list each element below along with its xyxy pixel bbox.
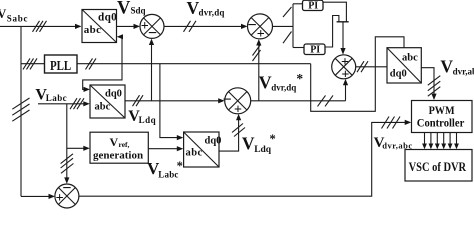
- slashes on riser (2): [253, 45, 261, 56]
- PI block PI2: [304, 44, 325, 55]
- wire left vertical from node J1 down to sum S5: [20, 26, 22, 196]
- gate pulse wires PWM to VSC (6): [424, 133, 426, 146]
- wire branch down to Vref gen and S5: [66, 104, 68, 178]
- slashes on theta rail (2): [86, 58, 93, 69]
- PI block PI1: [303, 0, 324, 10]
- merge bar: [337, 21, 349, 23]
- svg-text:abc: abc: [84, 24, 102, 36]
- svg-text:Ldq: Ldq: [139, 115, 157, 125]
- block U1 abc->dq0: [82, 10, 117, 43]
- svg-text:dvr,abc: dvr,abc: [453, 67, 474, 77]
- svg-text:PI: PI: [310, 45, 320, 56]
- svg-text:PWM: PWM: [429, 105, 455, 117]
- svg-text:dvr,dq: dvr,dq: [271, 83, 296, 93]
- wire PLL output / theta rail: [77, 63, 311, 65]
- summing junction S3: [332, 55, 356, 79]
- wire theta elbow into U2 left edge: [83, 64, 122, 90]
- wire S4 output: [251, 100, 346, 102]
- slash d-axis branch: [283, 7, 292, 17]
- PLL block: [45, 55, 78, 73]
- svg-text:*: *: [296, 71, 303, 86]
- block Vref generation: [90, 132, 148, 163]
- wire U3 output V_Ldq* riser into S4: [219, 119, 239, 151]
- block PWM controller: [412, 101, 473, 133]
- slashes on S3 output (2): [357, 61, 364, 72]
- svg-text:−: −: [248, 17, 257, 34]
- svg-text:PLL: PLL: [50, 59, 71, 74]
- wire into PI1: [293, 3, 303, 5]
- slash q-axis branch: [283, 32, 292, 44]
- block VSC of DVR: [405, 150, 472, 182]
- svg-text:dq0: dq0: [205, 136, 222, 147]
- svg-text:Sabc: Sabc: [7, 13, 29, 23]
- svg-text:Ldq: Ldq: [254, 145, 272, 155]
- wire into PI2: [293, 47, 304, 49]
- svg-text:+: +: [234, 102, 242, 117]
- svg-text:Labc: Labc: [158, 170, 178, 180]
- wire into Vref generation block: [67, 147, 85, 149]
- svg-text:V: V: [0, 7, 6, 21]
- svg-text:V: V: [440, 56, 453, 76]
- svg-text:−: −: [148, 25, 157, 42]
- wire PI splitter vertical: [292, 4, 294, 48]
- wire U4 output down into PWM: [421, 68, 434, 95]
- slashes on S4 output (2): [318, 95, 326, 106]
- summing junction S5: [55, 184, 79, 208]
- svg-text:dvr,abc: dvr,abc: [382, 141, 412, 151]
- wire V_Ldq rail from U2 to S4: [125, 100, 220, 102]
- svg-text:+: +: [56, 191, 64, 206]
- wire theta route into U4 top: [311, 37, 404, 112]
- arrowhead into transform U1: [75, 24, 82, 29]
- svg-text:Controller: Controller: [417, 117, 465, 129]
- 3-phase slashes on PLL input: [23, 58, 30, 69]
- svg-text:VSC of DVR: VSC of DVR: [409, 159, 467, 174]
- svg-text:dq0: dq0: [390, 69, 407, 80]
- summing junction S4: [225, 88, 251, 114]
- wire theta riser into U1 right edge: [119, 37, 123, 64]
- slashes on U4 output drop (3): [428, 76, 441, 86]
- slashes on V_Labc (3): [70, 98, 77, 109]
- svg-text:dq0: dq0: [105, 88, 122, 99]
- 3-phase slashes on V_Sabc rail: [33, 21, 40, 32]
- svg-text:Labc: Labc: [46, 93, 67, 103]
- 3-phase slashes on left vertical wire: [12, 98, 29, 109]
- wire U1 output V_Sdq: [117, 25, 135, 27]
- svg-text:+: +: [257, 27, 265, 42]
- svg-text:*: *: [177, 159, 183, 173]
- svg-text:abc: abc: [186, 147, 203, 158]
- wire into sum S5 plus input: [21, 195, 50, 197]
- slashes on vertical (3): [61, 154, 73, 164]
- svg-text:ref,: ref,: [119, 140, 130, 149]
- wire PI1 output: [323, 2, 346, 22]
- svg-text:*: *: [270, 132, 276, 146]
- block U3 abc->dq0: [184, 132, 219, 167]
- wire S2 output to PI split: [273, 25, 294, 27]
- slashes on feedback into PWM (3): [382, 117, 390, 129]
- wire theta drop into U3 left edge: [160, 64, 178, 138]
- wire Vref output V_Labc* into U3: [148, 148, 178, 150]
- wire bar to sum S3: [342, 22, 344, 51]
- slashes on V_Ldq (2): [133, 95, 140, 106]
- wire S1 output V_dvr,dq: [164, 25, 242, 27]
- wire V_dvr,dq* riser to S2 plus: [258, 44, 260, 101]
- svg-text:dq0: dq0: [98, 12, 117, 24]
- svg-text:V: V: [242, 133, 255, 153]
- svg-text:generation: generation: [93, 149, 143, 161]
- wire V_Labc into U2: [38, 103, 85, 105]
- svg-text:+: +: [341, 68, 349, 83]
- wire S4 riser into S3 bottom: [345, 84, 347, 101]
- svg-text:V: V: [110, 135, 119, 149]
- summing junction S1: [140, 14, 164, 38]
- block U2 abc->dq0: [90, 85, 125, 118]
- wire PLL input: [21, 63, 45, 65]
- svg-text:dvr,dq: dvr,dq: [199, 8, 225, 18]
- svg-text:−: −: [223, 92, 232, 109]
- svg-text:V: V: [259, 73, 272, 93]
- wire V_Sabc input rail: [0, 25, 76, 27]
- wire S5 output feedback V_dvr,abc into PWM: [79, 122, 406, 196]
- svg-text:abc: abc: [95, 101, 111, 112]
- block U4 dq0->abc: [387, 48, 421, 83]
- svg-text:V: V: [117, 0, 131, 18]
- svg-text:abc: abc: [402, 52, 418, 63]
- wire feedback riser V_Ldq to S1 minus: [151, 44, 153, 101]
- wire S3 output to U4: [356, 66, 387, 68]
- wire PI2 output: [325, 16, 339, 48]
- svg-text:PI: PI: [308, 1, 318, 12]
- slashes on V_dvr,dq (2): [184, 21, 191, 32]
- svg-text:Sdq: Sdq: [131, 6, 146, 16]
- slashes on V_Ldq* riser (2): [232, 124, 243, 133]
- summing junction S2: [248, 14, 273, 39]
